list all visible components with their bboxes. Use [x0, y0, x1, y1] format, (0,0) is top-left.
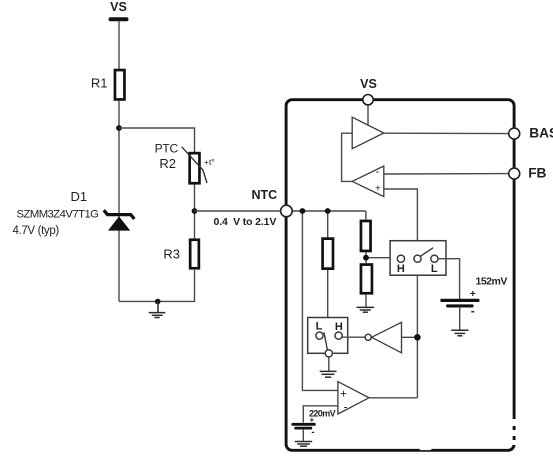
svg-text:152mV: 152mV [476, 275, 508, 287]
svg-text:VS: VS [360, 77, 377, 91]
svg-text:-: - [344, 400, 348, 414]
svg-text:-: - [376, 166, 380, 178]
svg-text:0.4 V to 2.1V: 0.4 V to 2.1V [214, 216, 277, 228]
svg-text:FB: FB [528, 166, 546, 181]
svg-text:-: - [471, 304, 475, 318]
svg-text:H: H [335, 321, 343, 333]
svg-text:H: H [397, 263, 405, 275]
svg-text:R2: R2 [159, 156, 176, 171]
svg-text:D1: D1 [71, 189, 88, 204]
svg-text:R3: R3 [163, 246, 180, 261]
svg-text:VS: VS [110, 0, 127, 14]
svg-text:-: - [311, 427, 314, 438]
svg-text:+t°: +t° [204, 157, 215, 167]
svg-text:NTC: NTC [252, 188, 278, 202]
svg-text:L: L [316, 320, 323, 332]
svg-text:L: L [431, 263, 438, 275]
svg-text:220mV: 220mV [309, 408, 336, 418]
svg-text:BASE: BASE [529, 126, 553, 141]
svg-text:PTC: PTC [155, 142, 179, 156]
svg-text:R1: R1 [91, 76, 108, 91]
svg-text:+: + [375, 183, 381, 195]
svg-text:SZMM3Z4V7T1G: SZMM3Z4V7T1G [17, 209, 99, 221]
svg-text:+: + [340, 386, 347, 400]
svg-text:4.7V (typ): 4.7V (typ) [13, 225, 60, 237]
svg-text:+: + [470, 289, 476, 300]
